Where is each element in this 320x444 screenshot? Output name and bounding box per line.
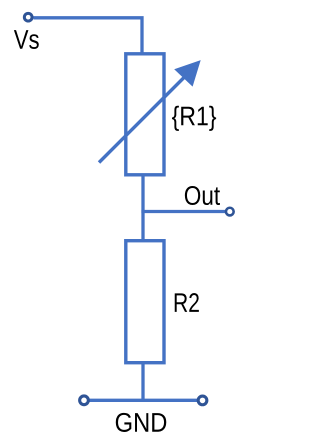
GND terminal left xyxy=(80,396,89,405)
wire Vs terminal to R1 top xyxy=(34,18,143,53)
value label {R1} xyxy=(172,106,216,131)
resistor R1 body (variable) xyxy=(126,54,164,175)
wire Out branch xyxy=(141,210,225,213)
wire R2 bottom to GND rail xyxy=(141,363,144,400)
wire R1 bottom to node Out xyxy=(141,177,144,212)
resistor R2 body xyxy=(126,241,164,363)
GND terminal right xyxy=(198,396,207,405)
label GND xyxy=(116,413,166,432)
R1 variable-resistor arrow head xyxy=(174,60,201,87)
wire node Out to R2 top xyxy=(141,212,144,240)
label Vs xyxy=(14,30,39,49)
terminal Vs xyxy=(24,13,32,21)
label R2 xyxy=(175,293,199,312)
GND rail wire xyxy=(89,399,198,402)
R1 variable-resistor arrow shaft xyxy=(99,74,188,163)
terminal Out xyxy=(226,208,234,216)
label Out xyxy=(185,186,220,205)
